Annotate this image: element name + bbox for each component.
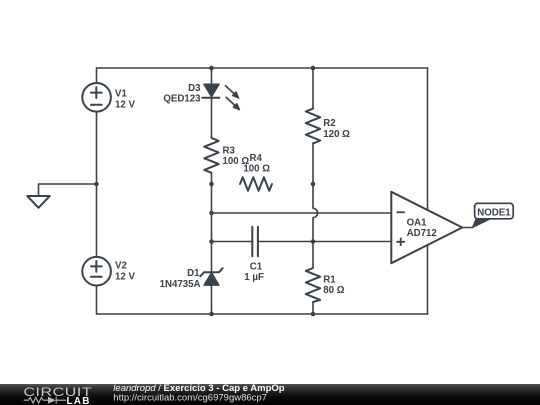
svg-text:120 Ω: 120 Ω <box>323 129 350 140</box>
voltage source V2 <box>82 257 111 286</box>
svg-text:V1: V1 <box>115 88 127 99</box>
svg-text:12 V: 12 V <box>115 271 135 282</box>
footer bar <box>0 383 540 405</box>
svg-text:D3: D3 <box>188 83 201 94</box>
wire bottom rail <box>97 313 428 315</box>
zener diode D1 <box>200 268 222 285</box>
svg-text:D1: D1 <box>187 268 200 279</box>
capacitor C1 <box>252 227 258 256</box>
resistor R1 <box>306 268 320 302</box>
svg-text:R3: R3 <box>223 146 236 157</box>
wire V1-to-V2 left column <box>96 112 98 257</box>
svg-text:R1: R1 <box>323 274 336 285</box>
svg-text:80 Ω: 80 Ω <box>323 285 344 296</box>
wire minus input row <box>212 212 392 214</box>
svg-text:1 µF: 1 µF <box>244 272 264 283</box>
wire R2 top lead <box>312 68 314 109</box>
wire right rail <box>427 68 429 314</box>
wire D3-to-R3 <box>211 98 213 138</box>
wire op-amp output <box>462 227 472 229</box>
logo resistor-diode glyph <box>24 397 66 404</box>
svg-text:LAB: LAB <box>67 396 91 405</box>
wire plus input row left <box>212 241 252 243</box>
resistor R4 <box>240 177 272 191</box>
node flag NODE1 <box>471 203 513 228</box>
svg-text:http://circuitlab.com/cg6979gw: http://circuitlab.com/cg6979gw86cp7 <box>113 393 267 404</box>
svg-text:AD712: AD712 <box>407 228 437 239</box>
wire top rail <box>97 67 428 69</box>
svg-text:1N4735A: 1N4735A <box>160 279 201 290</box>
wire R1 top lead <box>312 242 314 269</box>
wire hop over minus row <box>313 184 318 242</box>
resistor R2 <box>306 109 320 144</box>
svg-text:V2: V2 <box>115 260 127 271</box>
wire left mid column <box>211 184 213 272</box>
svg-text:NODE1: NODE1 <box>477 207 511 218</box>
svg-text:QED123: QED123 <box>163 93 201 104</box>
svg-text:R2: R2 <box>323 118 335 129</box>
svg-text:100 Ω: 100 Ω <box>243 163 270 174</box>
wire V2 bottom lead <box>96 286 98 314</box>
op-amp OA1 <box>391 192 462 263</box>
ground <box>27 196 49 208</box>
wire ground stub <box>39 184 97 196</box>
svg-text:OA1: OA1 <box>407 218 428 229</box>
wire D3 top lead <box>211 68 213 84</box>
wire R3 bottom lead <box>211 173 213 184</box>
svg-text:12 V: 12 V <box>115 99 135 110</box>
wire plus input row right <box>259 241 391 243</box>
wire D1 bottom lead <box>211 285 213 314</box>
svg-text:R4: R4 <box>250 153 263 164</box>
wire R1 bottom lead <box>312 302 314 314</box>
svg-text:C1: C1 <box>250 261 263 272</box>
wire R2 bottom lead <box>312 143 314 184</box>
LED D3 <box>202 84 239 110</box>
voltage source V1 <box>82 83 111 112</box>
wire V1 top lead <box>96 68 98 83</box>
resistor R3 <box>204 138 218 173</box>
